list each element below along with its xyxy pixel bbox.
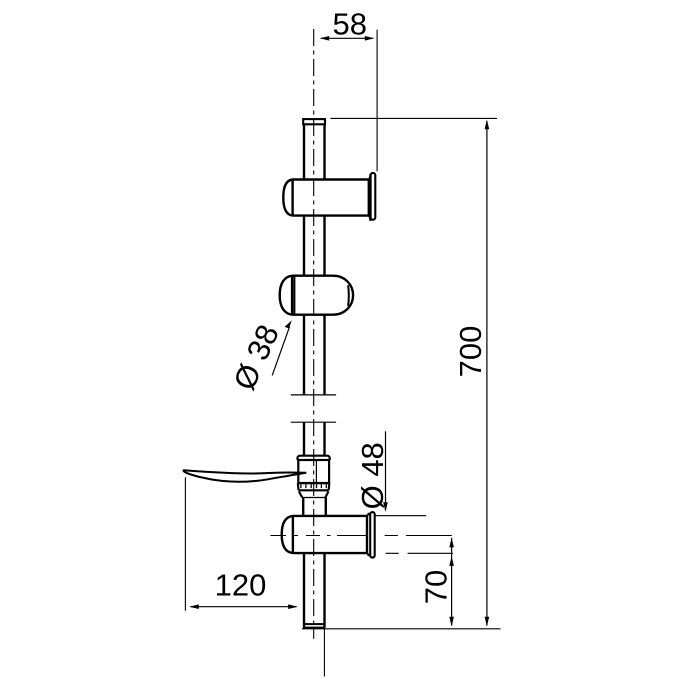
- svg-text:700: 700: [453, 326, 488, 378]
- svg-text:120: 120: [215, 568, 267, 603]
- tube break lower line: [291, 421, 336, 423]
- rail tube lower segment walls: [303, 553, 305, 627]
- lever handle blade: [184, 470, 307, 482]
- rail tube bottom cap: [304, 624, 325, 628]
- vertical line below baseline at tube right edge: [323, 629, 325, 677]
- slider cap bottom line: [298, 459, 330, 461]
- rail tube top cap: [303, 119, 325, 124]
- vertical centerline of rail: [313, 29, 315, 639]
- svg-text:70: 70: [418, 570, 453, 604]
- extension line at lower bracket flange top: [375, 515, 426, 517]
- tube break upper line: [291, 394, 336, 396]
- extension line left for 120 dim: [184, 477, 186, 610]
- sliding soap dish holder (capsule): [280, 276, 353, 315]
- svg-text:58: 58: [333, 7, 367, 42]
- slider knurled ring: [298, 483, 330, 490]
- dimension line 120: [189, 604, 298, 609]
- upper bracket flange flare: [369, 174, 371, 221]
- rail tube between capsule and break: [303, 315, 305, 395]
- capsule right inner arc: [347, 285, 350, 306]
- lower bracket axis centerline: [271, 535, 452, 537]
- dimension line 70 with upper tick arrow: [449, 538, 454, 627]
- svg-text:Ø 48: Ø 48: [355, 442, 390, 509]
- rail tube between bracket and slider knob: [303, 216, 305, 276]
- rail tube upper segment walls: [303, 124, 305, 180]
- upper wall bracket body: [283, 180, 369, 216]
- lower bracket flange rim: [370, 512, 375, 558]
- slider body: [298, 460, 329, 483]
- cone bottom line: [302, 497, 325, 499]
- slider body inner line: [315, 460, 317, 482]
- bottom baseline: [302, 628, 501, 630]
- lower dashed extension line: [386, 552, 453, 554]
- capsule inner ring line: [293, 276, 295, 314]
- leader line for diameter 48: [383, 431, 388, 512]
- rail tube between break and slider: [303, 422, 305, 455]
- dimension line 58: [320, 36, 375, 41]
- slider neck walls: [302, 498, 304, 516]
- knurling ticks: [301, 484, 326, 488]
- extension line right of 58 dim: [376, 30, 378, 172]
- dimension line 700: [485, 120, 490, 627]
- top extension line from tube top: [330, 117, 497, 119]
- lower bracket flange flare: [367, 513, 369, 556]
- leader arrow for diameter 38: [272, 320, 292, 375]
- upper bracket flange rim: [371, 173, 376, 220]
- shower head slider cap: [298, 456, 330, 460]
- lower bracket body: [282, 516, 367, 553]
- slider cone: [299, 491, 329, 497]
